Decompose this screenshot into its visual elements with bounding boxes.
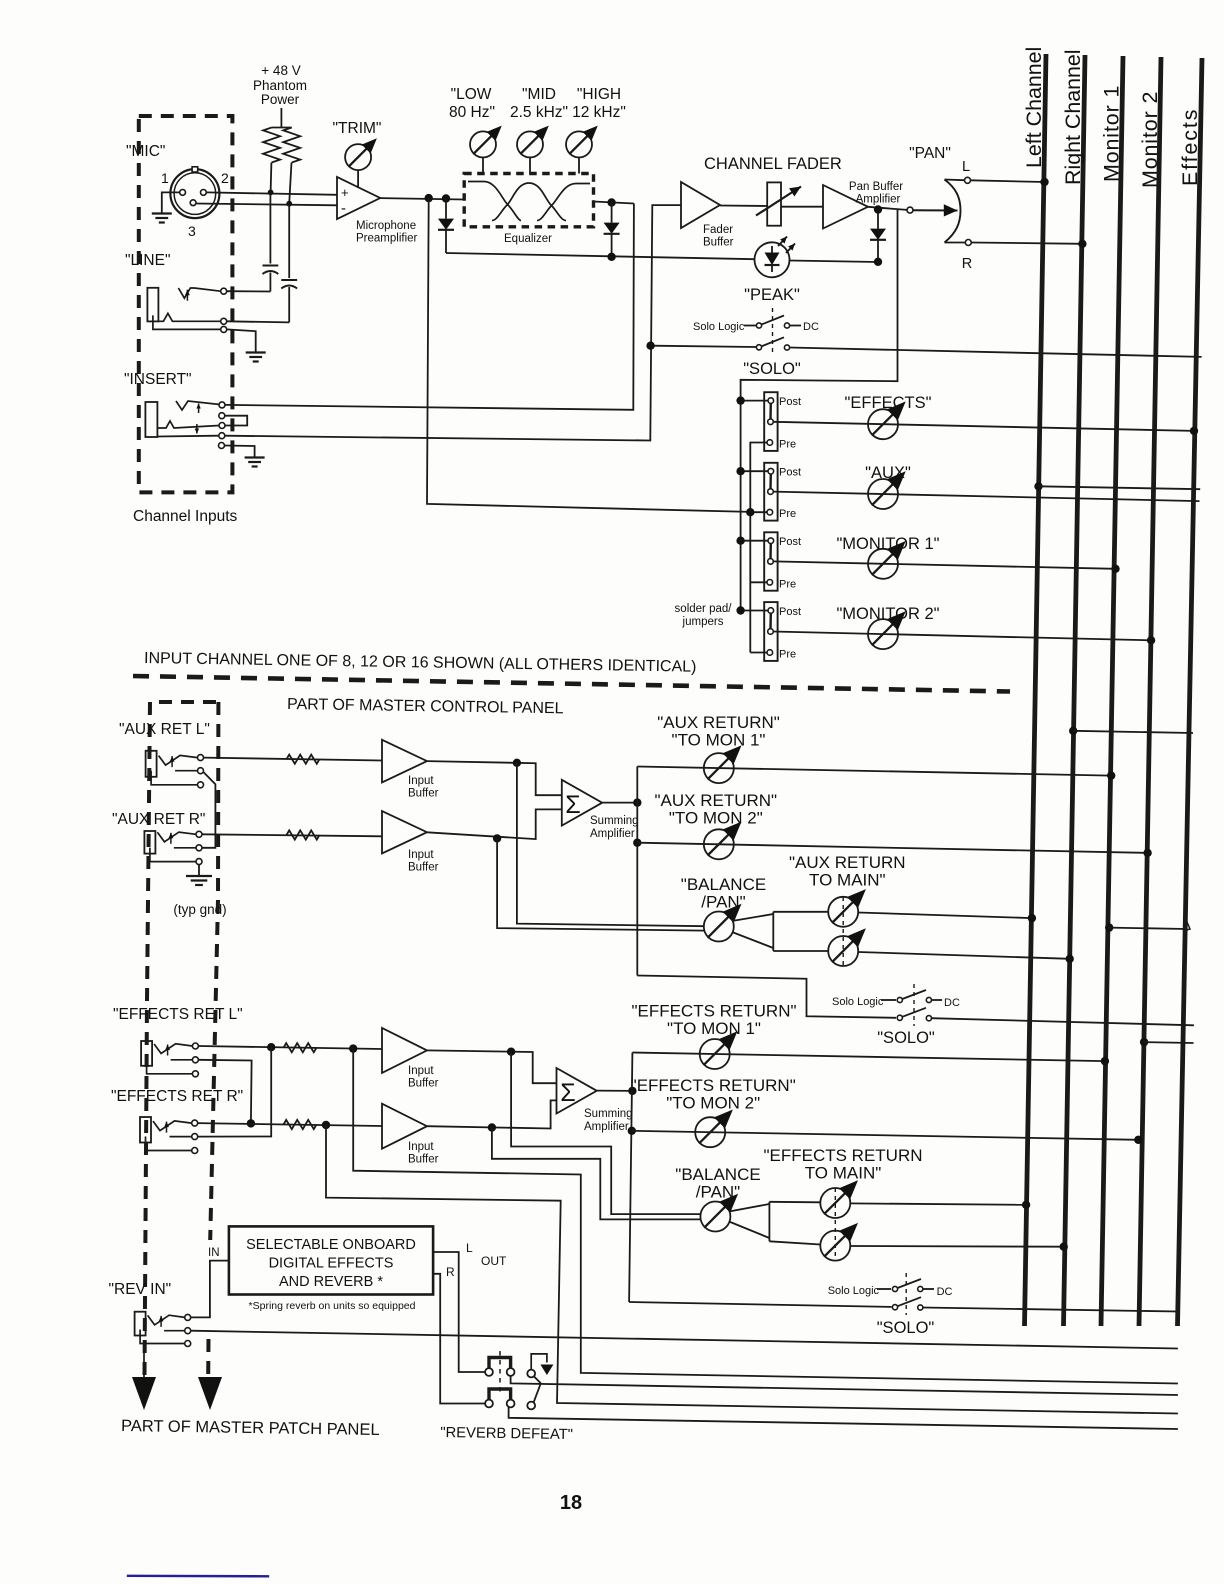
svg-text:Buffer: Buffer <box>408 1154 439 1166</box>
svg-text:Input: Input <box>408 1141 434 1153</box>
svg-text:"AUX RET R": "AUX RET R" <box>112 811 205 828</box>
label +48V Phantom Power <box>253 63 307 107</box>
wire send line AUX <box>773 492 1199 502</box>
master patch panel dashed box <box>145 702 219 1375</box>
pot AUX send <box>868 471 906 509</box>
wire balance split bracket (aux) <box>732 912 773 951</box>
jumper block MONITOR 1 (pre/post select) <box>764 532 777 590</box>
resistor R1 aux ret L <box>287 755 320 764</box>
svg-text:Σ: Σ <box>565 791 580 819</box>
svg-text:Pan Buffer: Pan Buffer <box>849 181 903 193</box>
svg-text:"MONITOR 2": "MONITOR 2" <box>836 605 939 623</box>
bus Right Channel <box>1061 49 1085 1326</box>
svg-text:solder pad/: solder pad/ <box>675 603 733 615</box>
label EFFECTS RETURN TO MON 1 <box>631 1002 796 1039</box>
label Summing Amplifier (effects) <box>584 1108 633 1133</box>
label IN <box>208 1247 220 1259</box>
ground (mic) <box>152 214 172 223</box>
wire pre-feed vertical <box>749 442 751 653</box>
wire post tap MONITOR 2 <box>736 606 768 614</box>
label INSERT <box>124 371 192 388</box>
pot LOW <box>470 126 502 174</box>
svg-text:Equalizer: Equalizer <box>504 233 552 245</box>
label Fader Buffer <box>703 224 734 249</box>
bus Effects <box>1178 58 1203 1326</box>
svg-text:Power: Power <box>261 92 300 107</box>
label Post (MONITOR 1) <box>779 536 801 548</box>
junction aux sum node <box>633 798 641 806</box>
pot AUX RETURN TO MON 1 <box>704 745 742 783</box>
wire aux ret R to buffer <box>202 834 382 836</box>
jumper block MONITOR 2 (pre/post select) <box>764 602 777 661</box>
wire rev in tip to reverb box IN <box>191 1261 229 1318</box>
junction phantom-left / pin2 <box>268 190 274 196</box>
equalizer block (dashed) <box>464 174 593 227</box>
wire send line EFFECTS <box>773 422 1198 435</box>
wire to main R pot (effects) <box>769 1241 820 1244</box>
label AUX RET L <box>119 721 210 738</box>
label BALANCE /PAN (aux) <box>681 875 766 912</box>
wire aux sum vertical <box>636 767 638 976</box>
switch SOLO (effects) <box>892 1297 1178 1311</box>
label Equalizer <box>504 233 552 245</box>
svg-text:"BALANCE: "BALANCE <box>675 1165 760 1184</box>
svg-text:Microphone: Microphone <box>356 220 416 232</box>
junction effects R to balance <box>488 1123 496 1131</box>
svg-text:12 kHz": 12 kHz" <box>572 104 626 121</box>
junction pan-diode <box>874 205 882 213</box>
svg-text:"BALANCE: "BALANCE <box>681 875 766 894</box>
junction aux L to balance <box>513 759 521 767</box>
fader (channel fader) <box>756 182 801 225</box>
wire pan L to Left bus <box>971 178 1049 186</box>
resistor phantom R left <box>263 128 280 163</box>
wire phantom right to pin3 line <box>289 163 291 204</box>
wire aux L down to balance upper <box>517 763 705 926</box>
pot EFFECTS RETURN TO MAIN L <box>820 1180 858 1218</box>
wire aux R down to balance lower <box>497 838 704 930</box>
junction effects L to balance <box>507 1048 515 1056</box>
op-amp U7 input buffer (effects L) <box>382 1028 427 1073</box>
pot AUX RETURN TO MON 2 <box>704 822 742 860</box>
wire reverb L out to defeat <box>433 1252 485 1372</box>
wire to main R pot (aux) <box>773 950 828 952</box>
junction pan diode / clamp line <box>874 258 882 266</box>
svg-text:Phantom: Phantom <box>253 78 307 93</box>
wire aux send upper line from Left bus <box>1034 482 1200 490</box>
wire effects L normal feed down (to reverb defeat line) <box>353 1049 1178 1384</box>
svg-text:DIGITAL EFFECTS: DIGITAL EFFECTS <box>269 1256 394 1272</box>
svg-text:"AUX RET L": "AUX RET L" <box>119 721 210 738</box>
op-amp U3 pan buffer amplifier <box>823 185 868 229</box>
wire insert return up to fader buffer <box>225 205 681 440</box>
bus Left Channel <box>1022 47 1046 1326</box>
wire effects L tip normal to R ring <box>198 1047 271 1136</box>
wire XLR pin2 to preamp + <box>207 192 337 194</box>
wire pre tap AUX <box>746 508 767 516</box>
channel inputs dashed box <box>139 116 233 492</box>
svg-text:"AUX RETURN": "AUX RETURN" <box>657 713 780 732</box>
wire aux main R to Right bus <box>858 952 1074 963</box>
svg-text:Solo Logic: Solo Logic <box>828 1285 880 1297</box>
jack J7 EFFECTS RET R <box>140 1117 198 1154</box>
svg-text:R: R <box>446 1265 455 1279</box>
resistor R3 effects ret L <box>284 1043 317 1052</box>
pot AUX RETURN TO MAIN L <box>828 889 866 927</box>
svg-text:Left Channel: Left Channel <box>1022 47 1046 168</box>
wire aux solo feed <box>637 976 896 1018</box>
label spring reverb note <box>249 1300 416 1312</box>
wire Monitor1 bus pickup to page edge <box>1105 922 1190 932</box>
label Pre (MONITOR 1) <box>779 578 796 590</box>
wire pre tap EFFECTS <box>750 442 767 444</box>
junction effects L normal tap <box>267 1043 275 1051</box>
svg-text:Buffer: Buffer <box>408 788 439 800</box>
svg-text:"LINE": "LINE" <box>125 252 170 269</box>
svg-text:"EFFECTS": "EFFECTS" <box>845 394 932 412</box>
svg-text:"PEAK": "PEAK" <box>744 286 800 304</box>
label Pan Buffer Amplifier <box>849 181 903 206</box>
wire aux summing out <box>602 802 637 804</box>
wire post tap AUX <box>736 467 768 475</box>
wire post tap MONITOR 1 <box>736 537 768 545</box>
junction aux mon2 tap <box>633 839 641 847</box>
svg-text:"PAN": "PAN" <box>909 145 951 162</box>
svg-text:"AUX": "AUX" <box>865 464 911 482</box>
svg-text:Input: Input <box>408 775 434 787</box>
svg-text:Pre: Pre <box>779 508 796 520</box>
wire effects main L to Left bus <box>850 1201 1030 1209</box>
XLR pin label 1 <box>161 170 169 186</box>
capacitor C1 (line L dc block) <box>263 192 279 291</box>
label CHANNEL FADER <box>704 155 842 173</box>
junction effects sum node <box>628 1087 636 1095</box>
wire XLR pin3 to preamp - <box>196 204 337 206</box>
switch SOLO (aux) <box>897 1008 1194 1026</box>
svg-text:"EFFECTS RETURN: "EFFECTS RETURN <box>763 1146 922 1165</box>
ground (insert jack) <box>245 458 265 467</box>
wire phantom left to pin2 line <box>270 163 273 193</box>
capacitor C2 (line R dc block) <box>281 204 297 323</box>
ground (typ gnd) <box>186 876 212 885</box>
bus Monitor 2 <box>1138 57 1162 1326</box>
wire effects L ring normal to R tip <box>198 1060 255 1128</box>
diode D3 pan buffer clamp <box>870 210 886 263</box>
wire into pan pot with arrow <box>913 204 958 216</box>
svg-text:Channel Inputs: Channel Inputs <box>133 508 238 525</box>
wire EQ output <box>594 202 634 204</box>
label Input Buffer (aux L) <box>408 775 439 800</box>
label Post (AUX) <box>779 467 801 479</box>
wire aux L buffer out to summing amp <box>427 761 562 795</box>
wire clamp line left (diodes to LED) <box>446 253 755 259</box>
wire balance split bracket (effects) <box>729 1202 769 1242</box>
svg-text:Amplifier: Amplifier <box>856 194 901 206</box>
op-amp U2 fader buffer <box>681 182 720 228</box>
pot MONITOR 1 send <box>868 541 906 579</box>
label solder pad/jumpers <box>675 603 733 628</box>
label R OUT <box>446 1265 455 1279</box>
diode D2 clamp right <box>604 203 620 258</box>
label EFFECTS send <box>845 394 932 412</box>
svg-text:"TO MON 2": "TO MON 2" <box>666 1094 760 1113</box>
wire effects L tip line <box>198 1046 382 1049</box>
svg-text:AND REVERB *: AND REVERB * <box>279 1274 383 1290</box>
pot AUX RETURN TO MAIN R <box>828 928 866 966</box>
label PART OF MASTER PATCH PANEL <box>121 1417 380 1439</box>
separator dashed line <box>133 676 1010 692</box>
wire aux ret R sleeve to ground <box>198 865 200 876</box>
jumper block AUX (pre/post select) <box>764 463 777 521</box>
svg-text:Buffer: Buffer <box>408 1078 439 1090</box>
label REVERB DEFEAT <box>440 1425 573 1443</box>
svg-text:"EFFECTS RET L": "EFFECTS RET L" <box>113 1006 243 1023</box>
svg-text:-: - <box>341 200 346 217</box>
label AUX RETURN TO MON 1 <box>657 713 780 750</box>
label Microphone Preamplifier <box>356 220 418 245</box>
wire XLR pin1 to ground <box>162 192 180 213</box>
wire LINE ring to C2 <box>227 321 290 322</box>
wire insert sleeve to ground <box>225 446 255 458</box>
wire effects main R to Right bus <box>850 1243 1068 1251</box>
svg-text:jumpers: jumpers <box>682 616 724 628</box>
wire aux main L to Left bus <box>858 913 1036 923</box>
svg-text:Fader: Fader <box>703 224 733 236</box>
svg-text:"TO MON 1": "TO MON 1" <box>672 731 766 750</box>
wire LINE tip to C1 <box>227 290 271 292</box>
label EFFECTS RET R <box>111 1088 243 1105</box>
wire effects L buffer out to summing amp <box>427 1050 557 1083</box>
label INPUT CHANNEL note <box>144 650 697 676</box>
svg-text:"MONITOR 1": "MONITOR 1" <box>836 535 939 553</box>
wire aux ret L ring normal to R ring <box>202 772 215 848</box>
svg-text:"TRIM": "TRIM" <box>333 120 382 137</box>
label MID 2.5 kHz <box>510 86 568 121</box>
label Input Buffer (effects L) <box>408 1065 439 1090</box>
wire Monitor2 bus pickup to page edge <box>1140 1038 1194 1046</box>
switch solo logic (aux, control row) <box>832 984 960 1026</box>
svg-text:Solo Logic: Solo Logic <box>832 996 884 1008</box>
wire send line MONITOR 1 <box>773 561 1119 573</box>
junction phantom-right / pin3 <box>286 201 292 207</box>
wire effects R down to balance lower <box>492 1128 702 1220</box>
op-amp U9 summing amplifier (effects) <box>557 1068 597 1114</box>
svg-text:Input: Input <box>408 1065 434 1077</box>
svg-text:"LOW: "LOW <box>451 86 492 103</box>
svg-text:IN: IN <box>208 1247 220 1259</box>
svg-text:TO MAIN": TO MAIN" <box>809 871 886 890</box>
svg-text:CHANNEL FADER: CHANNEL FADER <box>704 155 842 173</box>
op-amp U6 summing amplifier (aux) <box>562 780 602 826</box>
svg-text:R: R <box>962 256 972 272</box>
wire insert normal U link <box>225 416 247 426</box>
jack J4 AUX RET L <box>146 751 204 788</box>
label EFFECTS RETURN TO MON 2 <box>631 1076 796 1113</box>
svg-text:1: 1 <box>161 170 169 186</box>
label SOLO (aux) <box>877 1029 935 1047</box>
label L OUT <box>466 1241 507 1268</box>
wire effects L down to balance upper <box>511 1052 701 1214</box>
svg-text:Post: Post <box>779 536 801 548</box>
label Post (MONITOR 2) <box>779 606 801 618</box>
jumper block EFFECTS (pre/post select) <box>764 392 777 451</box>
wire Right bus pickup to page edge <box>1069 727 1193 735</box>
label MONITOR 2 send <box>836 605 939 623</box>
label Input Buffer (aux R) <box>408 849 439 874</box>
label typ gnd <box>173 902 226 917</box>
junction effects L input tap <box>349 1044 357 1052</box>
label EFFECTS RET L <box>113 1006 243 1023</box>
jack J3 INSERT <box>145 401 225 449</box>
page number 18 <box>560 1492 582 1514</box>
svg-text:Post: Post <box>779 396 801 408</box>
junction eq right diode / clamp line <box>607 253 615 261</box>
label pan R <box>962 256 972 272</box>
svg-text:Pre: Pre <box>779 649 796 661</box>
wire pan R to Right bus <box>971 240 1086 248</box>
label HIGH 12 kHz <box>572 86 626 121</box>
wire insert ring contact to return circle <box>157 435 218 438</box>
wire effects to mon1 line <box>632 1053 1109 1066</box>
wire effects R tip line <box>198 1123 382 1126</box>
wire defeat top to long line L3 <box>511 1376 1178 1395</box>
label pan L <box>962 159 970 175</box>
label Pre (MONITOR 2) <box>779 649 796 661</box>
svg-text:DC: DC <box>937 1286 953 1298</box>
wire preamp output <box>380 198 464 199</box>
svg-text:Right Channel: Right Channel <box>1061 49 1085 185</box>
svg-text:Buffer: Buffer <box>703 237 734 249</box>
wire rev in ring long line <box>191 1331 1178 1349</box>
label Pre (EFFECTS) <box>779 439 796 451</box>
label SOLO (channel) <box>743 360 801 378</box>
bus Monitor 1 <box>1100 56 1124 1326</box>
svg-text:"MIC": "MIC" <box>126 143 165 160</box>
XLR pin label 3 <box>188 223 196 239</box>
svg-text:80 Hz": 80 Hz" <box>449 104 495 121</box>
wire to main L pot (effects) <box>769 1201 820 1204</box>
diode D1 clamp left <box>438 199 454 254</box>
pot BALANCE/PAN (aux) <box>704 904 742 942</box>
label AUX RETURN TO MAIN <box>789 853 906 890</box>
pot EFFECTS RETURN TO MON 1 <box>700 1031 738 1069</box>
svg-text:"SOLO": "SOLO" <box>877 1319 935 1337</box>
op-amp U5 input buffer (aux R) <box>382 811 427 854</box>
svg-text:"REVERB DEFEAT": "REVERB DEFEAT" <box>440 1425 573 1443</box>
junction preamp-out / insert-send-feed <box>425 194 433 202</box>
label BALANCE /PAN (effects) <box>675 1165 760 1202</box>
node pan input connector <box>907 207 913 213</box>
svg-text:"EFFECTS RETURN": "EFFECTS RETURN" <box>631 1002 796 1021</box>
svg-text:Effects: Effects <box>1178 108 1202 186</box>
label AUX RETURN TO MON 2 <box>655 791 778 828</box>
svg-text:OUT: OUT <box>481 1254 507 1268</box>
jack J6 EFFECTS RET L <box>141 1041 198 1077</box>
svg-text:2.5 kHz": 2.5 kHz" <box>510 104 568 121</box>
arrow master patch panel right <box>198 1377 222 1410</box>
svg-text:Preamplifier: Preamplifier <box>356 233 418 245</box>
pot TRIM <box>345 138 377 188</box>
jack J5 AUX RET R <box>144 831 202 865</box>
wire to main L pot (aux) <box>773 911 828 913</box>
wire pre-fader feed down to Pre bus <box>427 198 750 512</box>
svg-text:Input: Input <box>408 849 434 861</box>
label SOLO (effects) <box>877 1319 935 1337</box>
wire aux to mon2 line <box>637 843 1152 857</box>
wire reverb R out to defeat <box>433 1274 485 1404</box>
label REV IN <box>109 1281 172 1298</box>
svg-text:Monitor 2: Monitor 2 <box>1138 91 1162 188</box>
svg-text:TO MAIN": TO MAIN" <box>805 1164 882 1183</box>
wire post tap EFFECTS <box>736 396 768 404</box>
switch solo logic (effects, control row) <box>828 1273 953 1315</box>
label Input Buffer (effects R) <box>408 1141 439 1166</box>
svg-text:Post: Post <box>779 606 801 618</box>
label LOW 80 Hz <box>449 86 495 121</box>
wire LINE sleeve to ground <box>227 329 256 352</box>
op-amp U8 input buffer (effects R) <box>382 1104 427 1149</box>
LED PEAK <box>755 237 796 278</box>
scan mark bottom left (blue line) <box>127 1575 269 1578</box>
svg-text:"TO MON 1": "TO MON 1" <box>667 1019 761 1038</box>
arrow master patch panel left <box>132 1340 156 1410</box>
svg-text:(typ gnd): (typ gnd) <box>173 902 226 917</box>
svg-text:L: L <box>466 1241 473 1255</box>
svg-text:Solo Logic: Solo Logic <box>693 321 745 333</box>
junction effects R input tap <box>322 1121 330 1129</box>
svg-text:"TO MON 2": "TO MON 2" <box>669 809 763 828</box>
svg-text:+: + <box>341 185 349 200</box>
svg-text:Post: Post <box>779 467 801 479</box>
resistor phantom R right <box>283 128 300 163</box>
label AUX send <box>865 464 911 482</box>
junction effects mon2 tap <box>628 1127 636 1135</box>
op-amp U4 input buffer (aux L) <box>382 740 427 783</box>
wire effects R normal feed down (to reverb defeat line) <box>326 1125 1178 1414</box>
gang dashed line (effects main pots) <box>834 1188 836 1261</box>
XLR pin label 2 <box>221 170 229 186</box>
svg-text:"MID: "MID <box>522 86 556 103</box>
wire aux ret L to buffer <box>204 758 383 761</box>
reverb block (SELECTABLE ONBOARD DIGITAL EFFECTS AND REVERB) <box>229 1226 433 1294</box>
wire pre tap MONITOR 2 <box>750 652 767 654</box>
svg-text:"AUX RETURN: "AUX RETURN <box>789 853 906 872</box>
wire phantom feed <box>272 108 292 128</box>
switch REVERB DEFEAT <box>485 1351 553 1409</box>
jack J2 LINE <box>147 288 226 333</box>
svg-text:Summing: Summing <box>584 1108 633 1120</box>
svg-text:SELECTABLE ONBOARD: SELECTABLE ONBOARD <box>246 1237 416 1253</box>
svg-text:2: 2 <box>221 170 229 186</box>
svg-text:"AUX RETURN": "AUX RETURN" <box>655 791 778 810</box>
pot EFFECTS RETURN TO MON 2 <box>695 1110 733 1148</box>
wire defeat bottom to long line L5 <box>509 1408 1178 1430</box>
wire fader buffer out to fader <box>720 205 767 208</box>
label AUX RET R <box>112 811 205 828</box>
svg-text:"INSERT": "INSERT" <box>124 371 192 388</box>
wire effects R buffer out to summing amp <box>427 1100 557 1128</box>
label PAN <box>909 145 951 162</box>
wire insert send (EQ out down to insert tip) <box>225 204 634 410</box>
svg-text:/PAN": /PAN" <box>696 1183 740 1202</box>
svg-text:"SOLO": "SOLO" <box>743 360 801 378</box>
jack J8 REV IN <box>135 1312 191 1347</box>
junction eq-left-diode <box>442 194 450 202</box>
wire effects solo feed <box>629 1302 891 1307</box>
svg-text:L: L <box>962 159 970 175</box>
wire aux to mon1 line <box>637 767 1115 780</box>
wire pan buffer output <box>868 207 907 210</box>
